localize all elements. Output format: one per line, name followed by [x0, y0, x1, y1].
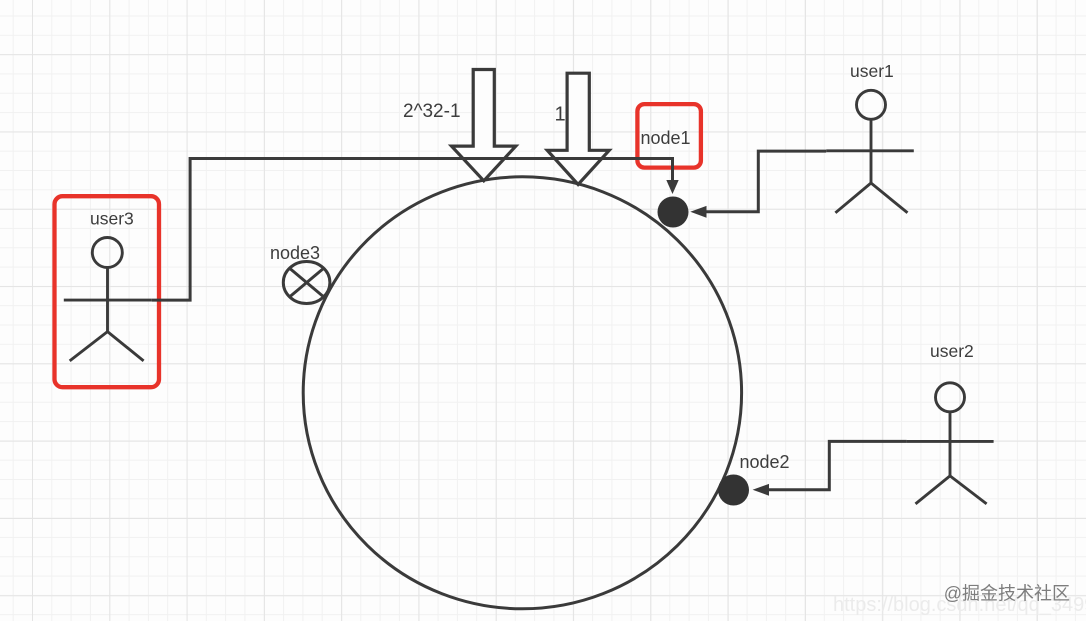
node1 red highlight box	[637, 104, 701, 168]
wire user1 to node1 dot	[690, 151, 826, 218]
svg-text:user2: user2	[930, 341, 974, 361]
block arrow 1	[547, 73, 609, 184]
wire user2 to node2 dot	[753, 441, 907, 495]
user3 stick figure	[64, 238, 152, 361]
svg-text:node1: node1	[641, 128, 691, 148]
user3 red highlight box	[55, 196, 160, 387]
node1 dot	[658, 197, 689, 228]
hash ring circle	[303, 177, 741, 609]
svg-text:node2: node2	[740, 452, 790, 472]
user2 stick figure	[907, 383, 994, 504]
svg-text:2^32-1: 2^32-1	[403, 101, 461, 122]
svg-text:@掘金技术社区: @掘金技术社区	[944, 584, 1070, 604]
svg-text:user1: user1	[850, 61, 894, 81]
svg-text:user3: user3	[90, 209, 134, 229]
wire user3 to node1 dot	[152, 159, 679, 301]
node2 dot	[718, 475, 749, 506]
node3 circle-X symbol	[283, 262, 330, 304]
svg-text:node3: node3	[270, 243, 320, 263]
user1 stick figure	[826, 90, 914, 213]
block arrow 2^32-1	[452, 70, 516, 181]
svg-text:1: 1	[555, 104, 566, 126]
